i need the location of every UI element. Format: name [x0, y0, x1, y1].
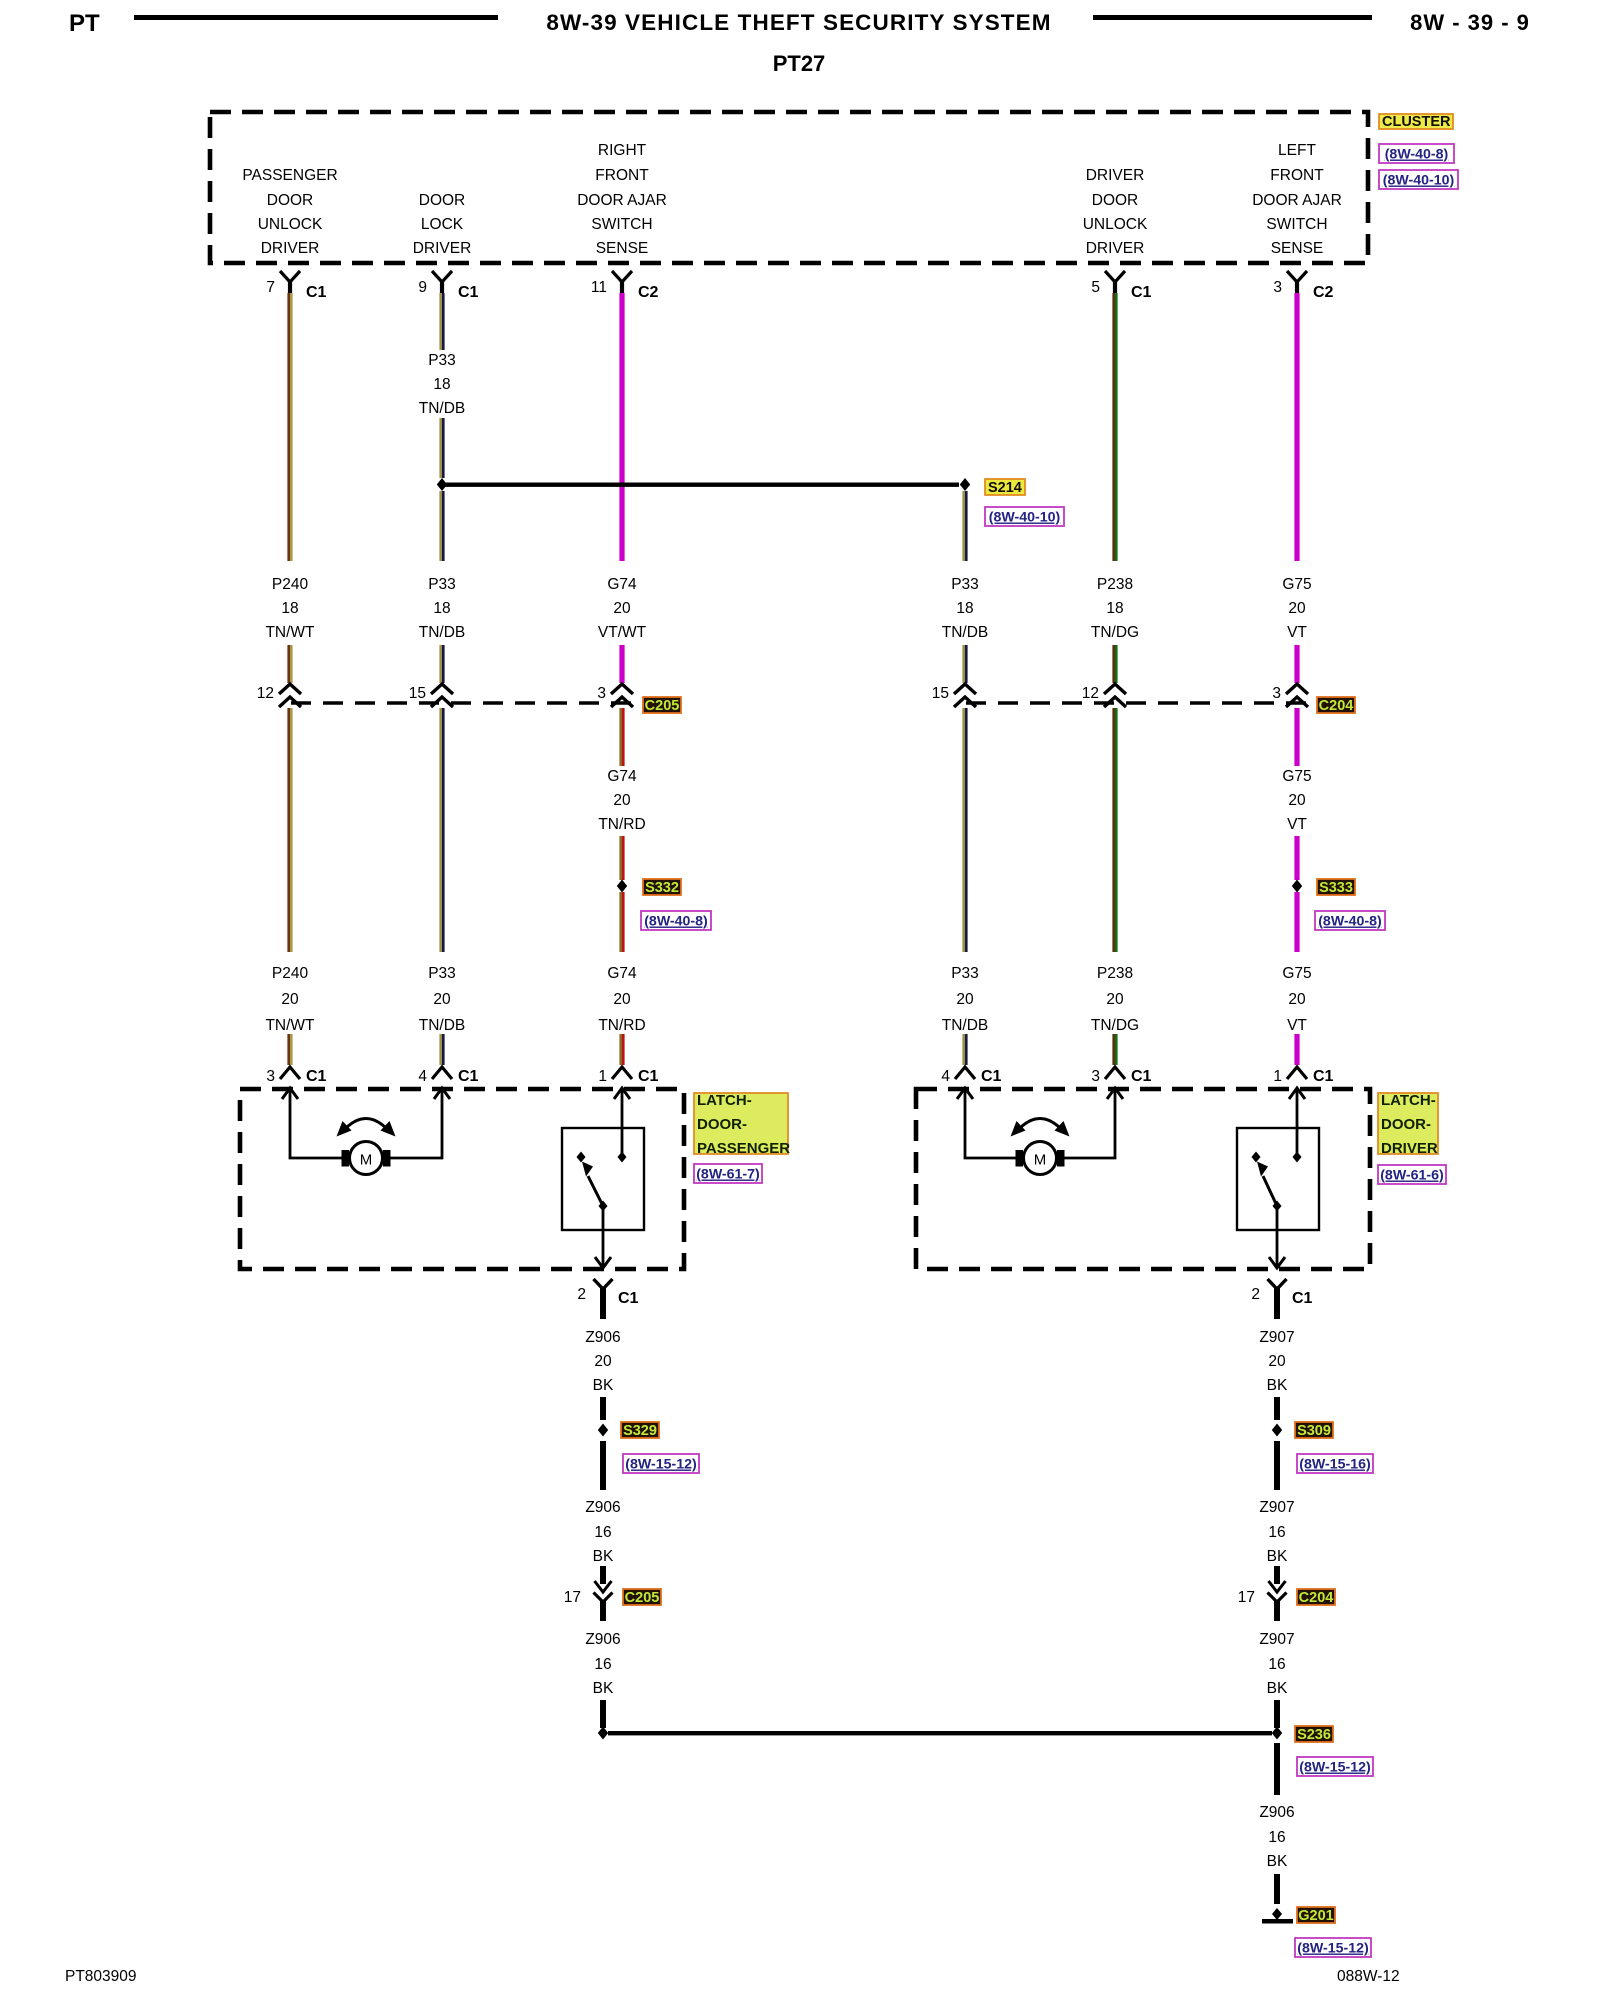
wire S214 horizontal — [443, 483, 959, 487]
svg-text:P33: P33 — [428, 352, 456, 369]
svg-text:DOOR-: DOOR- — [1381, 1116, 1431, 1133]
svg-text:C1: C1 — [1131, 1068, 1152, 1085]
svg-text:S236: S236 — [1297, 1727, 1331, 1743]
svg-text:11: 11 — [591, 279, 607, 296]
svg-text:(8W-61-6): (8W-61-6) — [1380, 1168, 1444, 1184]
svg-text:G74: G74 — [607, 768, 637, 785]
svg-text:CLUSTER: CLUSTER — [1382, 114, 1451, 130]
svg-text:TN/DB: TN/DB — [419, 400, 466, 417]
svg-text:G74: G74 — [607, 965, 637, 982]
svg-text:UNLOCK: UNLOCK — [258, 216, 323, 233]
svg-text:VT/WT: VT/WT — [598, 624, 647, 641]
wire Z906 BK — [600, 1441, 606, 1490]
connector C2 pin 11 — [591, 271, 659, 301]
label P238 20 TN/DG — [1091, 965, 1139, 1034]
svg-text:PT27: PT27 — [773, 51, 826, 76]
svg-text:DOOR AJAR: DOOR AJAR — [1252, 192, 1342, 209]
svg-text:DRIVER: DRIVER — [1381, 1140, 1438, 1157]
connector C205 pin 15 — [409, 684, 453, 707]
svg-text:C1: C1 — [981, 1068, 1002, 1085]
svg-text:SWITCH: SWITCH — [1266, 216, 1327, 233]
wire P33 TN/DB — [962, 491, 967, 561]
svg-text:VT: VT — [1287, 1017, 1307, 1034]
switch contacts driver — [1252, 1152, 1302, 1212]
svg-text:C204: C204 — [1299, 1590, 1334, 1606]
arrowhead into box — [1289, 1088, 1305, 1099]
connector C2 pin 3 — [1273, 271, 1333, 301]
svg-text:G74: G74 — [607, 576, 637, 593]
label P33 18 TN/DB — [942, 576, 989, 641]
svg-text:TN/RD: TN/RD — [598, 1017, 645, 1034]
connector C1 pin 5 — [1091, 271, 1151, 301]
link (8W-40-10) S214 — [985, 507, 1064, 526]
connector C205 pin 12 — [257, 684, 301, 707]
label G75 20 VT — [1282, 576, 1311, 641]
label CLUSTER — [1379, 114, 1453, 130]
svg-text:DRIVER: DRIVER — [413, 240, 472, 257]
svg-text:Z906: Z906 — [585, 1631, 620, 1648]
svg-text:(8W-40-8): (8W-40-8) — [1385, 147, 1449, 163]
svg-text:LATCH-: LATCH- — [697, 1092, 752, 1109]
svg-text:SENSE: SENSE — [1271, 240, 1324, 257]
wire latch driver switch output — [1276, 1206, 1279, 1266]
svg-text:C1: C1 — [1313, 1068, 1334, 1085]
svg-text:P240: P240 — [272, 965, 309, 982]
label S332 — [643, 879, 681, 896]
svg-text:C2: C2 — [1313, 284, 1334, 301]
connector latch C1 pin 1 — [598, 1067, 658, 1085]
svg-text:FRONT: FRONT — [1270, 167, 1324, 184]
svg-text:7: 7 — [266, 279, 275, 296]
link (8W-40-8) S332 — [641, 911, 711, 930]
svg-text:LOCK: LOCK — [421, 216, 464, 233]
ground G201 — [1262, 1908, 1293, 1924]
header rule right — [1093, 15, 1372, 20]
wire Z907 BK — [1274, 1700, 1280, 1728]
arrowhead into box — [434, 1088, 450, 1099]
wire P33 TN/DB — [962, 708, 967, 952]
svg-text:BK: BK — [1267, 1853, 1288, 1870]
svg-text:2: 2 — [1251, 1286, 1260, 1303]
label P33 20 TN/DB — [419, 965, 466, 1034]
wire Z906 BK — [600, 1397, 606, 1420]
wire P33 TN/DB — [439, 418, 444, 478]
label G201 — [1297, 1907, 1335, 1924]
connector latch C1 pin 4 — [941, 1067, 1001, 1085]
svg-text:20: 20 — [594, 1353, 612, 1370]
svg-text:DOOR: DOOR — [1092, 192, 1139, 209]
wire Z907 BK — [1274, 1441, 1280, 1490]
link (8W-61-7) — [694, 1164, 762, 1183]
svg-text:Z906: Z906 — [1259, 1804, 1294, 1821]
svg-text:S214: S214 — [988, 480, 1022, 496]
svg-text:3: 3 — [597, 685, 606, 702]
svg-text:P238: P238 — [1097, 576, 1133, 593]
svg-text:20: 20 — [281, 991, 299, 1008]
svg-text:S333: S333 — [1319, 880, 1353, 896]
splice — [437, 478, 447, 491]
connector C1 pin 2 driver — [1251, 1279, 1312, 1319]
svg-text:BK: BK — [593, 1548, 614, 1565]
arrowhead into box — [1107, 1088, 1123, 1099]
label P33 20 TN/DB — [942, 965, 989, 1034]
motor M passenger — [342, 1142, 391, 1175]
wire P33 TN/DB — [439, 1034, 444, 1065]
svg-text:C1: C1 — [306, 1068, 327, 1085]
svg-text:20: 20 — [1268, 1353, 1286, 1370]
svg-text:G75: G75 — [1282, 965, 1311, 982]
svg-text:LEFT: LEFT — [1278, 142, 1316, 159]
svg-text:(8W-40-8): (8W-40-8) — [644, 914, 708, 930]
wire P33 TN/DB — [962, 1034, 967, 1065]
svg-text:(8W-15-16): (8W-15-16) — [1299, 1457, 1371, 1473]
wire P33 TN/DB — [439, 645, 444, 683]
wire P33 TN/DB — [439, 491, 444, 561]
svg-text:(8W-15-12): (8W-15-12) — [1299, 1760, 1371, 1776]
switch box driver — [1237, 1128, 1319, 1230]
label C205 — [643, 697, 681, 714]
svg-text:FRONT: FRONT — [595, 167, 649, 184]
wire G75 VT — [1294, 836, 1299, 880]
svg-text:DOOR-: DOOR- — [697, 1116, 747, 1133]
svg-text:12: 12 — [257, 685, 274, 702]
svg-text:G75: G75 — [1282, 576, 1311, 593]
svg-text:18: 18 — [433, 376, 450, 393]
wire Z906 BK — [600, 1700, 606, 1728]
wire Z906 horizontal to S236 — [608, 1731, 1272, 1735]
link (8W-15-12) S329 — [623, 1454, 699, 1473]
svg-text:20: 20 — [613, 792, 631, 809]
connector C205 pin 17 — [564, 1566, 613, 1621]
svg-text:DOOR: DOOR — [419, 192, 466, 209]
svg-text:5: 5 — [1091, 279, 1100, 296]
label Z907 16 BK — [1259, 1499, 1294, 1565]
wire Z906 BK — [1274, 1874, 1280, 1904]
component box LATCH-DOOR-DRIVER — [916, 1089, 1370, 1269]
svg-text:(8W-61-7): (8W-61-7) — [696, 1167, 760, 1183]
wire latch passenger motor feed left — [290, 1089, 342, 1158]
label S329 — [621, 1422, 659, 1439]
svg-text:C1: C1 — [638, 1068, 659, 1085]
svg-text:C205: C205 — [645, 698, 680, 714]
svg-text:3: 3 — [1272, 685, 1281, 702]
label S333 — [1317, 879, 1355, 896]
arrowhead into box — [957, 1088, 973, 1099]
svg-text:M: M — [360, 1152, 373, 1169]
connector latch C1 pin 3 — [1091, 1067, 1151, 1085]
svg-text:TN/DB: TN/DB — [419, 1017, 466, 1034]
link (8W-15-16) S309 — [1297, 1454, 1373, 1473]
label LATCH-DOOR-PASSENGER — [694, 1093, 788, 1154]
svg-text:S309: S309 — [1297, 1423, 1331, 1439]
connector C1 pin 9 — [418, 271, 478, 301]
svg-text:20: 20 — [433, 991, 451, 1008]
svg-text:S329: S329 — [623, 1423, 657, 1439]
svg-text:15: 15 — [932, 685, 949, 702]
svg-text:20: 20 — [1288, 991, 1306, 1008]
svg-text:Z907: Z907 — [1259, 1631, 1294, 1648]
switch blade passenger — [582, 1162, 603, 1207]
wire G74 VT/WT — [619, 645, 624, 683]
svg-text:TN/WT: TN/WT — [265, 1017, 315, 1034]
svg-text:12: 12 — [1082, 685, 1099, 702]
svg-text:C205: C205 — [625, 1590, 660, 1606]
connector C205 dashed line — [291, 701, 642, 704]
svg-text:M: M — [1034, 1152, 1047, 1169]
splice S236 — [1272, 1727, 1282, 1740]
switch contacts passenger — [577, 1152, 627, 1212]
label P33 18 TN/DB — [419, 576, 466, 641]
motor M driver — [1016, 1142, 1065, 1175]
connector C1 pin 7 — [266, 271, 326, 301]
svg-text:P33: P33 — [428, 576, 456, 593]
svg-text:16: 16 — [1268, 1524, 1285, 1541]
label G74 20 TN/RD — [598, 965, 645, 1034]
wire G75 VT — [1294, 708, 1299, 766]
wire G75 VT — [1294, 892, 1299, 952]
wire P33 TN/DB — [439, 293, 444, 350]
wire G75 VT — [1294, 293, 1299, 561]
wire G74 TN/RD — [619, 892, 624, 952]
wire P240 TN/WT — [287, 645, 292, 683]
svg-text:VT: VT — [1287, 624, 1307, 641]
svg-text:C1: C1 — [618, 1290, 639, 1307]
svg-text:TN/RD: TN/RD — [598, 816, 645, 833]
svg-text:PT803909: PT803909 — [65, 1968, 137, 1985]
svg-text:16: 16 — [1268, 1656, 1285, 1673]
svg-text:PASSENGER: PASSENGER — [697, 1140, 790, 1157]
svg-text:Z906: Z906 — [585, 1499, 620, 1516]
svg-text:2: 2 — [577, 1286, 586, 1303]
link (8W-40-8) — [1379, 144, 1454, 163]
svg-text:16: 16 — [1268, 1829, 1285, 1846]
wire latch driver motor feed left — [965, 1089, 1016, 1158]
svg-text:20: 20 — [613, 600, 631, 617]
svg-text:P33: P33 — [951, 965, 979, 982]
svg-text:1: 1 — [598, 1068, 607, 1085]
svg-text:DOOR: DOOR — [267, 192, 314, 209]
label G74 20 VT/WT — [598, 576, 647, 641]
svg-text:C1: C1 — [1292, 1290, 1313, 1307]
label P33 18 TN/DB — [419, 352, 466, 417]
svg-text:088W-12: 088W-12 — [1337, 1968, 1400, 1985]
splice S309 — [1272, 1424, 1282, 1437]
svg-text:Z907: Z907 — [1259, 1499, 1294, 1516]
wire P33 TN/DB — [439, 708, 444, 952]
wire P240 TN/WT — [287, 1034, 292, 1065]
label P240 18 TN/WT — [265, 576, 315, 641]
connector C1 pin 2 passenger — [577, 1279, 638, 1319]
svg-text:G75: G75 — [1282, 768, 1311, 785]
svg-text:C1: C1 — [1131, 284, 1152, 301]
svg-text:20: 20 — [1288, 792, 1306, 809]
svg-text:Z907: Z907 — [1259, 1329, 1294, 1346]
label Z906 20 BK — [585, 1329, 620, 1394]
svg-text:20: 20 — [1288, 600, 1306, 617]
connector C204 pin 17 — [1238, 1566, 1287, 1621]
svg-text:LATCH-: LATCH- — [1381, 1092, 1436, 1109]
svg-text:16: 16 — [594, 1524, 611, 1541]
label S236 — [1295, 1726, 1333, 1743]
label C204 — [1317, 697, 1355, 714]
wire P33 TN/DB — [962, 645, 967, 683]
svg-text:SWITCH: SWITCH — [591, 216, 652, 233]
svg-text:17: 17 — [1238, 1589, 1255, 1606]
svg-text:(8W-40-8): (8W-40-8) — [1318, 914, 1382, 930]
svg-text:TN/DB: TN/DB — [942, 1017, 989, 1034]
svg-text:P33: P33 — [951, 576, 979, 593]
cluster dashed box — [210, 112, 1368, 263]
label Z906 16 BK — [1259, 1804, 1294, 1870]
svg-text:(8W-40-10): (8W-40-10) — [989, 510, 1061, 526]
svg-text:4: 4 — [941, 1068, 950, 1085]
svg-text:17: 17 — [564, 1589, 581, 1606]
svg-text:DOOR AJAR: DOOR AJAR — [577, 192, 667, 209]
splice S333 — [1292, 880, 1302, 893]
label S214 — [985, 479, 1025, 496]
splice S329 — [598, 1424, 608, 1437]
switch box passenger — [562, 1128, 644, 1230]
wire latch passenger ajar switch feed — [621, 1089, 624, 1155]
label C205 pin 17 label — [623, 1589, 661, 1606]
connector C204 pin 3 — [1272, 684, 1308, 707]
svg-text:20: 20 — [613, 991, 631, 1008]
wire G74 VT/WT — [619, 293, 624, 561]
splice S332 — [617, 880, 627, 893]
svg-text:(8W-15-12): (8W-15-12) — [1297, 1941, 1369, 1957]
svg-text:RIGHT: RIGHT — [598, 142, 647, 159]
svg-text:16: 16 — [594, 1656, 611, 1673]
svg-text:SENSE: SENSE — [596, 240, 649, 257]
svg-text:18: 18 — [281, 600, 298, 617]
wire latch driver motor feed right — [1064, 1089, 1115, 1158]
svg-text:BK: BK — [593, 1680, 614, 1697]
connector C204 dashed line — [966, 701, 1316, 704]
label G75 20 VT — [1282, 965, 1311, 1034]
motor rotation arrows passenger — [337, 1119, 396, 1137]
motor rotation arrows driver — [1011, 1119, 1070, 1137]
wire latch passenger motor feed right — [390, 1089, 442, 1158]
svg-text:PASSENGER: PASSENGER — [242, 167, 337, 184]
header rule left — [134, 15, 498, 20]
connector latch C1 pin 4 — [418, 1067, 478, 1085]
svg-text:20: 20 — [956, 991, 974, 1008]
svg-text:8W-39 VEHICLE THEFT SECURITY S: 8W-39 VEHICLE THEFT SECURITY SYSTEM — [546, 10, 1051, 35]
label Z906 16 BK — [585, 1499, 620, 1565]
svg-text:C1: C1 — [306, 284, 327, 301]
svg-text:C1: C1 — [458, 284, 479, 301]
link (8W-61-6) — [1378, 1165, 1446, 1184]
wire P238 TN/DG — [1112, 708, 1117, 952]
wire Z906 BK — [1274, 1743, 1280, 1795]
svg-text:C204: C204 — [1319, 698, 1354, 714]
label LATCH-DOOR-DRIVER — [1378, 1093, 1438, 1154]
svg-text:VT: VT — [1287, 816, 1307, 833]
svg-text:UNLOCK: UNLOCK — [1083, 216, 1148, 233]
wire G74 TN/RD — [619, 708, 624, 766]
label Z906 16 BK — [585, 1631, 620, 1697]
svg-text:(8W-40-10): (8W-40-10) — [1383, 173, 1455, 189]
svg-text:BK: BK — [1267, 1680, 1288, 1697]
svg-text:18: 18 — [956, 600, 973, 617]
svg-text:P33: P33 — [428, 965, 456, 982]
arrowhead out of box — [595, 1257, 611, 1268]
wire P240 TN/WT — [287, 293, 292, 561]
switch blade driver — [1257, 1162, 1277, 1207]
svg-text:(8W-15-12): (8W-15-12) — [625, 1457, 697, 1473]
svg-text:1: 1 — [1273, 1068, 1282, 1085]
wire G74 TN/RD — [619, 836, 624, 880]
svg-text:G201: G201 — [1298, 1908, 1333, 1924]
wire Z907 BK — [1274, 1397, 1280, 1420]
link (8W-15-12) G201 — [1295, 1938, 1371, 1957]
svg-text:C1: C1 — [458, 1068, 479, 1085]
label G74 20 TN/RD — [598, 768, 645, 833]
svg-text:3: 3 — [1091, 1068, 1100, 1085]
svg-text:18: 18 — [433, 600, 450, 617]
wire latch passenger switch output — [602, 1206, 605, 1266]
wire P240 TN/WT — [287, 708, 292, 952]
label Z907 20 BK — [1259, 1329, 1294, 1394]
label C204 pin 17 label — [1297, 1589, 1335, 1606]
arrowhead out of box — [1269, 1257, 1285, 1268]
svg-text:TN/DG: TN/DG — [1091, 1017, 1139, 1034]
svg-text:9: 9 — [418, 279, 427, 296]
wire G74 TN/RD — [619, 1034, 624, 1065]
wire latch driver ajar switch feed — [1296, 1089, 1299, 1155]
svg-text:TN/DB: TN/DB — [419, 624, 466, 641]
connector C205 pin 3 — [597, 684, 633, 707]
splice S214 — [960, 478, 970, 491]
svg-text:C2: C2 — [638, 284, 659, 301]
connector latch C1 pin 1 — [1273, 1067, 1333, 1085]
svg-text:3: 3 — [266, 1068, 275, 1085]
wire P238 TN/DG — [1112, 1034, 1117, 1065]
connector C204 pin 12 — [1082, 684, 1126, 707]
svg-text:BK: BK — [1267, 1377, 1288, 1394]
link (8W-40-8) S333 — [1315, 911, 1385, 930]
label P240 20 TN/WT — [265, 965, 315, 1034]
arrowhead into box — [614, 1088, 630, 1099]
svg-text:20: 20 — [1106, 991, 1124, 1008]
wire G75 VT — [1294, 645, 1299, 683]
wire P238 TN/DG — [1112, 645, 1117, 683]
splice — [598, 1727, 608, 1740]
svg-text:TN/DB: TN/DB — [942, 624, 989, 641]
connector C204 pin 15 — [932, 684, 976, 707]
svg-text:PT: PT — [69, 10, 100, 37]
svg-text:DRIVER: DRIVER — [1086, 240, 1145, 257]
svg-text:S332: S332 — [645, 880, 679, 896]
svg-text:15: 15 — [409, 685, 426, 702]
svg-text:DRIVER: DRIVER — [261, 240, 320, 257]
svg-text:3: 3 — [1273, 279, 1282, 296]
svg-text:P240: P240 — [272, 576, 309, 593]
svg-text:TN/WT: TN/WT — [265, 624, 315, 641]
label P238 18 TN/DG — [1091, 576, 1139, 641]
link (8W-40-10) — [1379, 170, 1458, 189]
link (8W-15-12) S236 — [1297, 1757, 1373, 1776]
svg-text:DRIVER: DRIVER — [1086, 167, 1145, 184]
svg-text:BK: BK — [593, 1377, 614, 1394]
label G75 20 VT — [1282, 768, 1311, 833]
wire P238 TN/DG — [1112, 293, 1117, 561]
svg-text:BK: BK — [1267, 1548, 1288, 1565]
svg-text:Z906: Z906 — [585, 1329, 620, 1346]
svg-text:P238: P238 — [1097, 965, 1133, 982]
arrowhead into box — [282, 1088, 298, 1099]
connector latch C1 pin 3 — [266, 1067, 326, 1085]
